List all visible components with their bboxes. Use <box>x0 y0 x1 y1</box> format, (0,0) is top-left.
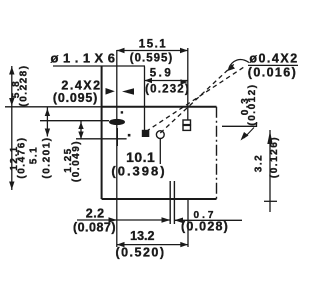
square pad <box>142 130 150 137</box>
dashed leader from square pad <box>146 67 244 132</box>
extension line right lower <box>187 199 189 247</box>
pin line right <box>173 181 175 224</box>
right dim line <box>269 130 271 212</box>
top-right label underline <box>248 64 298 66</box>
extension line middle pad <box>144 67 146 131</box>
svg-text:3.2: 3.2 <box>253 154 264 172</box>
svg-text:(0.028): (0.028) <box>181 220 229 234</box>
top surface reference line <box>5 106 102 108</box>
small arrows 2.4X2 <box>106 88 115 95</box>
svg-text:13.2: 13.2 <box>130 229 154 243</box>
oval pad <box>109 119 125 125</box>
svg-text:15.1: 15.1 <box>139 39 167 51</box>
leader from 10.1 label to circle pad <box>159 139 161 165</box>
component body top edge <box>102 106 217 108</box>
svg-text:5.9: 5.9 <box>150 68 174 80</box>
svg-text:(0.016): (0.016) <box>248 66 297 80</box>
left leader lower <box>76 138 127 140</box>
svg-text:(0.201): (0.201) <box>42 136 53 178</box>
svg-text:5.1: 5.1 <box>29 146 40 164</box>
svg-text:(0.398): (0.398) <box>111 164 166 179</box>
dashed leader from circle pad <box>160 62 236 133</box>
svg-text:(0.520): (0.520) <box>115 246 165 260</box>
svg-text:(0.126): (0.126) <box>269 136 280 178</box>
extension line right pad <box>187 48 189 120</box>
component body right edge hidden <box>216 107 218 199</box>
svg-text:(0.595): (0.595) <box>130 53 173 65</box>
extension line left pin center <box>116 50 118 247</box>
dim line 2.2 <box>77 219 170 221</box>
pin line left <box>169 181 171 224</box>
svg-text:2.2: 2.2 <box>86 207 105 221</box>
dim line 5.9 <box>145 80 188 82</box>
svg-text:(0.049): (0.049) <box>71 140 82 182</box>
circle pad <box>156 131 164 139</box>
dim line 15.1 <box>117 50 188 52</box>
svg-text:(0.228): (0.228) <box>19 64 30 106</box>
left dim 1.25 line <box>80 121 82 139</box>
svg-text:(0.095): (0.095) <box>53 91 98 105</box>
dim line 0.7 <box>174 219 242 221</box>
top-right label hook leader <box>229 59 250 70</box>
right pad B <box>183 120 191 125</box>
left dim line stack <box>11 66 13 190</box>
center cross mark <box>116 128 118 146</box>
svg-text:(0.476): (0.476) <box>16 136 27 178</box>
svg-text:ø0.4X2: ø0.4X2 <box>249 52 298 66</box>
component body bottom edge <box>102 198 217 200</box>
dim line 13.2 <box>117 244 188 246</box>
svg-text:(0.012): (0.012) <box>247 83 258 125</box>
left dim 5.1 line <box>46 107 48 137</box>
pad label underline <box>53 65 145 67</box>
component body left edge <box>101 67 103 200</box>
svg-text:ø1.1X6: ø1.1X6 <box>51 51 120 66</box>
left leader upper <box>40 120 109 122</box>
svg-text:(0.232): (0.232) <box>145 84 190 96</box>
svg-text:(0.087): (0.087) <box>73 221 116 235</box>
right bracket leader <box>222 122 257 126</box>
